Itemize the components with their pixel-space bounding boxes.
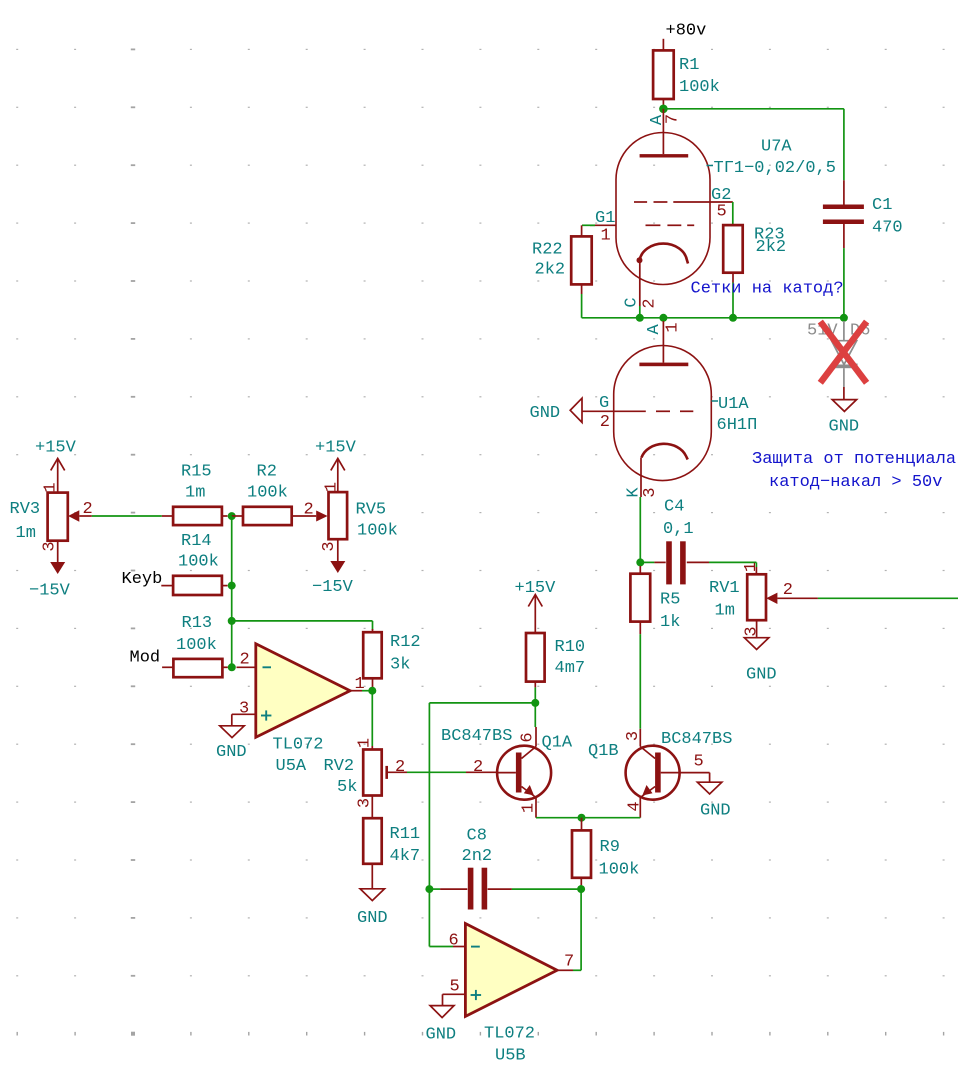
wire bbox=[92, 515, 162, 517]
svg-text:2: 2 bbox=[641, 298, 660, 308]
wire bbox=[640, 492, 642, 497]
svg-text:R15: R15 bbox=[181, 463, 212, 482]
label -15V bbox=[29, 582, 71, 601]
pin 2 of Q1A bbox=[473, 758, 483, 777]
svg-text:GND: GND bbox=[530, 404, 561, 423]
pin 3 of U1A bbox=[641, 487, 660, 497]
svg-text:GND: GND bbox=[216, 743, 247, 762]
node junction below R1 bbox=[659, 105, 668, 114]
wire bbox=[581, 225, 583, 236]
zener diode D6 (deleted) bbox=[832, 321, 857, 387]
wire bbox=[843, 109, 845, 181]
label +15V bbox=[515, 579, 557, 598]
wire bbox=[429, 946, 453, 948]
svg-text:1m: 1m bbox=[715, 602, 735, 621]
pin 3 wire of U5A bbox=[232, 714, 256, 726]
ground R11 bbox=[360, 889, 384, 901]
wire bbox=[639, 497, 641, 562]
node junction C4/R5 bbox=[636, 558, 644, 566]
label R15 value bbox=[181, 463, 212, 503]
transistor Q1B bbox=[626, 729, 710, 818]
label R1 value bbox=[679, 56, 720, 97]
resistor R15 bbox=[162, 507, 228, 525]
pin 7 of U5B bbox=[564, 953, 574, 972]
label R10 value bbox=[555, 638, 586, 678]
triode U1A bbox=[582, 321, 711, 492]
wire bbox=[639, 634, 641, 729]
label U1A value bbox=[717, 416, 758, 435]
pin C of U7A bbox=[623, 297, 642, 307]
node junction R15/R2 bbox=[228, 512, 236, 520]
svg-text:1: 1 bbox=[520, 803, 539, 813]
wire bbox=[843, 387, 845, 400]
node junction R12 branch bbox=[228, 617, 236, 625]
resistor R12 bbox=[363, 629, 382, 687]
svg-text:+80v: +80v bbox=[666, 22, 707, 41]
svg-text:4m7: 4m7 bbox=[555, 659, 586, 678]
pin G of U1A bbox=[599, 394, 609, 413]
deletion cross X bbox=[820, 322, 866, 383]
node junction R13/opamp bbox=[228, 663, 236, 671]
svg-text:U5A: U5A bbox=[276, 757, 307, 776]
svg-text:R11: R11 bbox=[390, 825, 421, 844]
svg-text:3k: 3k bbox=[390, 656, 410, 675]
svg-text:5: 5 bbox=[694, 753, 704, 772]
svg-text:Защита от потенциала: Защита от потенциала bbox=[752, 450, 956, 469]
svg-text:Mod: Mod bbox=[130, 649, 161, 668]
triode U7A bbox=[582, 109, 733, 306]
svg-text:2: 2 bbox=[395, 758, 405, 777]
note Защита bbox=[752, 450, 956, 492]
potentiometer RV1 bbox=[747, 567, 818, 638]
resistor R23 bbox=[723, 225, 743, 282]
svg-text:4: 4 bbox=[626, 801, 645, 811]
wire bbox=[709, 561, 756, 563]
power +15V (R10) bbox=[528, 595, 542, 634]
svg-text:C4: C4 bbox=[664, 498, 684, 517]
svg-text:3: 3 bbox=[624, 731, 643, 741]
wire bbox=[732, 202, 734, 225]
svg-text:2k2: 2k2 bbox=[535, 261, 566, 280]
pin 3 of RV1 bbox=[743, 626, 762, 636]
wire bbox=[534, 687, 536, 703]
wire bbox=[818, 597, 958, 599]
label GND bbox=[829, 418, 860, 437]
label U5A bbox=[273, 736, 324, 777]
svg-text:Сетки на катод?: Сетки на катод? bbox=[691, 280, 844, 299]
wire bbox=[371, 691, 373, 746]
pin 3 of Q1B bbox=[624, 731, 643, 741]
resistor R1 bbox=[653, 50, 674, 104]
pin G2 name bbox=[711, 186, 731, 205]
svg-text:3: 3 bbox=[320, 541, 339, 551]
svg-text:6Н1П: 6Н1П bbox=[717, 416, 758, 435]
svg-text:5: 5 bbox=[717, 203, 727, 222]
wire bbox=[428, 703, 430, 947]
resistor R11 bbox=[363, 818, 382, 889]
pin 5 of U7A bbox=[717, 203, 727, 222]
svg-text:1k: 1k bbox=[660, 613, 680, 632]
svg-text:GND: GND bbox=[829, 418, 860, 437]
wire bbox=[231, 621, 233, 667]
svg-text:100k: 100k bbox=[176, 636, 217, 655]
power +15V (RV5) bbox=[331, 458, 345, 492]
node junction C1/D6 bbox=[840, 314, 848, 322]
label U7A value bbox=[707, 159, 836, 178]
svg-text:7: 7 bbox=[564, 953, 574, 972]
node junction R23 bbox=[729, 314, 737, 322]
ground U5A bbox=[220, 726, 244, 738]
svg-text:470: 470 bbox=[872, 219, 903, 238]
wire bbox=[534, 703, 536, 727]
svg-text:2: 2 bbox=[240, 651, 250, 670]
svg-text:ТГ1−0,02/0,5: ТГ1−0,02/0,5 bbox=[714, 159, 836, 178]
resistor R22 bbox=[571, 236, 592, 294]
pin 2 of RV3 bbox=[83, 500, 93, 519]
svg-text:R9: R9 bbox=[600, 838, 620, 857]
wire bbox=[580, 885, 582, 889]
svg-text:100k: 100k bbox=[357, 522, 398, 541]
node junction U7A cathode bbox=[636, 314, 644, 322]
pin 5 wire of U5B bbox=[443, 994, 466, 1005]
pin 1 of RV1 bbox=[742, 562, 761, 572]
label RV5 value bbox=[356, 501, 398, 541]
label R22 value bbox=[532, 241, 565, 280]
node junction U1A anode bbox=[659, 314, 667, 322]
wire bbox=[237, 666, 256, 668]
svg-text:GND: GND bbox=[426, 1026, 457, 1045]
label RV1 value bbox=[709, 579, 740, 621]
label R23 value bbox=[754, 226, 786, 258]
svg-text:2: 2 bbox=[304, 501, 314, 520]
label GND bbox=[426, 1026, 457, 1045]
node junction R10/Q1A bbox=[531, 699, 539, 707]
wire bbox=[536, 817, 582, 819]
svg-text:R22: R22 bbox=[532, 241, 563, 260]
svg-text:C8: C8 bbox=[467, 827, 487, 846]
potentiometer RV3 bbox=[48, 493, 92, 541]
wire bbox=[512, 888, 581, 890]
pin 1 of Q1A bbox=[520, 803, 539, 813]
svg-text:GND: GND bbox=[746, 666, 777, 685]
svg-text:A: A bbox=[645, 324, 664, 335]
svg-text:4k7: 4k7 bbox=[390, 847, 421, 866]
svg-text:Keyb: Keyb bbox=[122, 570, 163, 589]
label R14 value bbox=[178, 532, 219, 572]
svg-text:BC847BS: BC847BS bbox=[441, 727, 512, 746]
ground bbox=[832, 400, 856, 412]
svg-text:−15V: −15V bbox=[29, 582, 71, 601]
label R11 value bbox=[390, 825, 421, 866]
svg-text:G1: G1 bbox=[595, 209, 615, 228]
label BC847BS (Q1A) bbox=[441, 727, 512, 746]
label GND bbox=[746, 666, 777, 685]
pin A of U1A bbox=[645, 324, 664, 335]
label Mod bbox=[130, 649, 161, 668]
wire bbox=[732, 283, 734, 318]
pin 6 of Q1A bbox=[519, 732, 538, 742]
svg-text:100k: 100k bbox=[247, 484, 288, 503]
svg-text:2: 2 bbox=[473, 758, 483, 777]
note Сетки на катод? bbox=[691, 280, 844, 299]
svg-text:RV3: RV3 bbox=[10, 500, 41, 519]
label R2 value bbox=[247, 463, 288, 503]
label GND bbox=[700, 802, 731, 821]
svg-text:RV5: RV5 bbox=[356, 501, 387, 520]
label R5 value bbox=[660, 591, 680, 633]
svg-text:TL072: TL072 bbox=[273, 736, 324, 755]
svg-text:7: 7 bbox=[664, 114, 683, 124]
op-amp U5B bbox=[465, 924, 557, 1017]
label R13 value bbox=[176, 614, 217, 655]
capacitor C8 bbox=[429, 868, 512, 910]
pin 4 of Q1B bbox=[626, 801, 645, 811]
label U1A bbox=[712, 395, 750, 414]
label RV3 value bbox=[10, 500, 41, 543]
svg-text:6: 6 bbox=[449, 932, 459, 951]
capacitor C1 bbox=[823, 180, 864, 248]
potentiometer RV2 bbox=[363, 746, 407, 818]
pin 3 of RV2 bbox=[356, 798, 375, 808]
label R12 value bbox=[390, 633, 421, 675]
svg-text:−15V: −15V bbox=[312, 578, 354, 597]
wire bbox=[843, 248, 845, 318]
svg-text:1: 1 bbox=[42, 482, 61, 492]
svg-text:5: 5 bbox=[450, 978, 460, 997]
label D6 51V (ghost) bbox=[807, 322, 870, 341]
pin 6 of U5B bbox=[449, 932, 459, 951]
svg-text:RV2: RV2 bbox=[324, 757, 355, 776]
svg-text:3: 3 bbox=[41, 541, 60, 551]
svg-text:GND: GND bbox=[700, 802, 731, 821]
svg-text:R10: R10 bbox=[555, 638, 586, 657]
pin A of U7A bbox=[648, 114, 667, 125]
ground bbox=[744, 638, 768, 650]
svg-text:U1A: U1A bbox=[718, 395, 749, 414]
label -15V bbox=[312, 578, 354, 597]
svg-text:2: 2 bbox=[83, 500, 93, 519]
pin 1 of U1A bbox=[664, 322, 683, 332]
resistor R10 bbox=[526, 633, 545, 687]
svg-text:катод−накал > 50v: катод−накал > 50v bbox=[769, 473, 942, 492]
wire bbox=[582, 817, 641, 819]
svg-text:1: 1 bbox=[664, 322, 683, 332]
svg-text:3: 3 bbox=[239, 700, 249, 719]
wire bbox=[639, 306, 641, 318]
pin 2 of RV2 bbox=[395, 758, 405, 777]
resistor R13 bbox=[162, 659, 228, 677]
capacitor C4 bbox=[644, 541, 709, 584]
pin 1 of RV5 bbox=[323, 482, 342, 492]
svg-text:1: 1 bbox=[323, 482, 342, 492]
svg-text:1: 1 bbox=[601, 227, 611, 246]
svg-text:C: C bbox=[623, 297, 642, 307]
wire bbox=[407, 771, 466, 773]
power +15V (RV3) bbox=[51, 458, 65, 492]
resistor R5 bbox=[630, 566, 650, 634]
svg-text:+15V: +15V bbox=[315, 439, 357, 458]
resistor R2 bbox=[232, 507, 328, 525]
power -15V (RV5) bbox=[330, 539, 345, 573]
svg-text:1: 1 bbox=[742, 562, 761, 572]
wire bbox=[429, 702, 535, 704]
svg-text:1m: 1m bbox=[185, 484, 205, 503]
label +15V bbox=[315, 439, 357, 458]
svg-text:GND: GND bbox=[357, 909, 388, 928]
pin 2 of U7A bbox=[641, 298, 660, 308]
power -15V (RV3) bbox=[50, 541, 65, 574]
pin 2 of RV1 bbox=[783, 581, 793, 600]
pin 1 of U5A bbox=[355, 675, 365, 694]
svg-text:TL072: TL072 bbox=[484, 1025, 535, 1044]
wire bbox=[350, 690, 372, 692]
svg-text:+15V: +15V bbox=[515, 579, 557, 598]
wire bbox=[453, 946, 465, 948]
label GND bbox=[357, 909, 388, 928]
pin K of U1A bbox=[625, 487, 644, 498]
pin 2 of U5A bbox=[240, 651, 250, 670]
label GND bbox=[216, 743, 247, 762]
svg-text:R5: R5 bbox=[660, 591, 680, 610]
label C4 value bbox=[663, 498, 694, 540]
svg-text:U7A: U7A bbox=[761, 138, 792, 157]
label +15V bbox=[35, 439, 77, 458]
potentiometer RV5 bbox=[329, 492, 348, 539]
wire bbox=[372, 621, 374, 630]
label Q1A bbox=[542, 734, 573, 753]
svg-text:Q1A: Q1A bbox=[542, 734, 573, 753]
wire bbox=[582, 317, 844, 319]
wire bbox=[580, 889, 582, 970]
svg-text:100k: 100k bbox=[178, 553, 219, 572]
svg-text:2k2: 2k2 bbox=[756, 238, 787, 257]
label C1 value bbox=[872, 196, 903, 238]
svg-text:1: 1 bbox=[356, 738, 375, 748]
wire bbox=[466, 771, 497, 773]
svg-text:R14: R14 bbox=[181, 532, 212, 551]
wire bbox=[231, 516, 233, 586]
svg-text:RV1: RV1 bbox=[709, 579, 740, 598]
svg-text:C1: C1 bbox=[872, 196, 892, 215]
label Q1B bbox=[588, 742, 619, 761]
node junction C8 left bbox=[425, 885, 433, 893]
pin 1 of U7A bbox=[601, 227, 611, 246]
wire bbox=[557, 969, 581, 971]
svg-text:3: 3 bbox=[356, 798, 375, 808]
svg-text:Q1B: Q1B bbox=[588, 742, 619, 761]
wire bbox=[755, 562, 757, 567]
svg-text:R12: R12 bbox=[390, 633, 421, 652]
label C8 value bbox=[462, 827, 493, 867]
label RV2 value bbox=[324, 757, 358, 797]
ground U5B bbox=[430, 1006, 454, 1018]
pin 3 of RV3 bbox=[41, 541, 60, 551]
pin 3 of U5A bbox=[239, 700, 249, 719]
svg-text:R1: R1 bbox=[679, 56, 699, 75]
svg-text:3: 3 bbox=[743, 626, 762, 636]
op-amp U5A bbox=[256, 644, 350, 737]
wire bbox=[663, 108, 844, 110]
label Keyb bbox=[122, 570, 163, 589]
svg-text:5k: 5k bbox=[337, 778, 357, 797]
pin 1 of RV3 bbox=[42, 482, 61, 492]
svg-text:0,1: 0,1 bbox=[663, 520, 694, 539]
svg-text:6: 6 bbox=[519, 732, 538, 742]
node junction U5A output bbox=[368, 687, 376, 695]
node junction emitters/R9 bbox=[578, 814, 586, 822]
wire bbox=[581, 294, 583, 318]
pin 2 of U1A bbox=[600, 413, 610, 432]
svg-text:G: G bbox=[599, 394, 609, 413]
svg-text:100k: 100k bbox=[599, 861, 640, 880]
pin 5 of Q1B bbox=[694, 753, 704, 772]
svg-text:100k: 100k bbox=[679, 78, 720, 97]
label GND bbox=[530, 404, 561, 423]
label R9 value bbox=[599, 838, 640, 880]
label U5B bbox=[484, 1025, 535, 1066]
wire bbox=[709, 773, 711, 783]
svg-text:R2: R2 bbox=[257, 463, 277, 482]
pin G1 name bbox=[595, 209, 615, 228]
node junction R9/C8 bbox=[577, 885, 585, 893]
svg-text:+15V: +15V bbox=[35, 439, 77, 458]
svg-text:BC847BS: BC847BS bbox=[661, 730, 732, 749]
pin 5 of U5B bbox=[450, 978, 460, 997]
pin 2 of RV5 bbox=[304, 501, 314, 520]
wire bbox=[232, 620, 373, 622]
svg-text:3: 3 bbox=[641, 487, 660, 497]
node junction R14 bbox=[228, 582, 236, 590]
svg-text:U5B: U5B bbox=[495, 1047, 526, 1066]
pin 3 of RV5 bbox=[320, 541, 339, 551]
wire bbox=[231, 586, 233, 621]
ground flag GND left bbox=[570, 398, 582, 422]
power label +80v bbox=[663, 22, 706, 51]
ground Q1B bbox=[697, 782, 721, 794]
svg-text:1m: 1m bbox=[16, 524, 36, 543]
label U7A bbox=[761, 138, 792, 157]
label BC847BS (Q1B) bbox=[661, 730, 732, 749]
svg-text:2: 2 bbox=[600, 413, 610, 432]
resistor R14 bbox=[161, 576, 227, 595]
transistor Q1A bbox=[497, 727, 551, 818]
pin 1 of RV2 bbox=[356, 738, 375, 748]
resistor R9 bbox=[572, 818, 591, 885]
svg-text:R13: R13 bbox=[182, 614, 213, 633]
pin 7 of U7A bbox=[664, 114, 683, 124]
svg-text:2n2: 2n2 bbox=[462, 847, 493, 866]
svg-text:2: 2 bbox=[783, 581, 793, 600]
